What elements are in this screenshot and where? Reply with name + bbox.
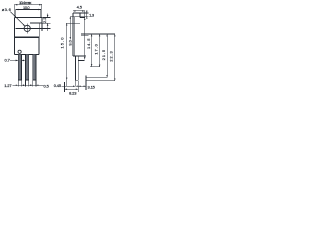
- right dims top extension: [81, 33, 115, 35]
- C arrows: [99, 34, 101, 36]
- lead 1 front: [18, 54, 21, 80]
- svg-text:3.15: 3.15: [88, 84, 96, 89]
- svg-text:0.45: 0.45: [54, 83, 62, 88]
- side view back edge: [72, 13, 74, 56]
- dim 0.45 line: [61, 85, 75, 87]
- front bottom extension lines: [17, 80, 19, 86]
- 2.2 arrows: [47, 15, 49, 18]
- L2 arrows: [70, 16, 72, 18]
- front view tab top edge: [15, 17, 42, 19]
- L1 arrows: [66, 23, 68, 25]
- svg-text:17.0: 17.0: [94, 43, 99, 54]
- 0.45 arrows: [73, 85, 75, 87]
- front body right edge upper (thin): [38, 23, 40, 37]
- dim 8.23 line: [65, 88, 79, 90]
- front body bottom edge: [15, 53, 40, 55]
- side lead: [74, 56, 76, 80]
- svg-text:21.5: 21.5: [101, 49, 106, 60]
- D arrows: [106, 34, 108, 36]
- E arrows: [114, 34, 116, 36]
- dim 4.5 top: [73, 10, 85, 12]
- side tab inner line: [74, 17, 76, 56]
- hole vertical centerline: [26, 24, 28, 34]
- svg-text:1.3: 1.3: [89, 12, 95, 17]
- A arrows: [84, 18, 86, 20]
- svg-text:22.3: 22.3: [108, 50, 113, 61]
- side view top edge: [73, 12, 80, 14]
- dim A bottom ext: [78, 60, 84, 62]
- svg-text:10.0: 10.0: [23, 5, 30, 10]
- 8.23 arrows: [65, 89, 67, 91]
- small index circle: [18, 50, 21, 53]
- side body bottom: [73, 55, 86, 57]
- front body top edge: [30, 22, 42, 24]
- side body front edge / dim A: [84, 18, 86, 60]
- svg-text:ø3.6: ø3.6: [2, 7, 12, 12]
- front bottom dim line: [12, 84, 43, 86]
- labels: [2, 0, 114, 96]
- svg-text:4.5: 4.5: [77, 5, 83, 10]
- body-top extension to left dim: [66, 22, 80, 24]
- dim 3.15 line: [78, 85, 86, 87]
- front body right edge lower: [38, 37, 40, 54]
- lead 2 front: [26, 54, 29, 80]
- dim 0.7 lines: [10, 59, 18, 61]
- dim 2.2 line: [47, 14, 49, 18]
- 10.0 arrows: [16, 9, 19, 11]
- mounting hole: [24, 25, 30, 31]
- side step at 17.5: [80, 17, 85, 19]
- dim 1.3 ext lines: [80, 12, 89, 14]
- 4.5 arrows: [73, 10, 76, 12]
- dim 10.0: [16, 9, 41, 11]
- svg-text:0.5: 0.5: [44, 83, 50, 88]
- tab/body split line (bold): [15, 36, 40, 38]
- front bottom arrow pairs: [16, 85, 18, 87]
- left dim L2: [69, 16, 71, 39]
- front view tab right edge: [41, 18, 43, 32]
- right dim D: [106, 34, 108, 77]
- side tab front upper: [79, 13, 81, 18]
- svg-text:9.0: 9.0: [67, 39, 72, 45]
- lead 3 front: [33, 54, 36, 80]
- svg-text:8.23: 8.23: [69, 91, 77, 96]
- svg-text:15.0: 15.0: [60, 37, 65, 49]
- svg-text:0.7: 0.7: [5, 58, 11, 63]
- right dim C: [99, 34, 101, 67]
- left dim L1: [66, 23, 68, 86]
- hole horizontal centerline: [16, 28, 51, 30]
- dim 2.2 ext lines: [43, 17, 51, 19]
- 0.7 arrows: [16, 60, 19, 62]
- ext vertical x86: [85, 76, 87, 91]
- 1.3 arrows: [86, 11, 88, 13]
- right dim B: [91, 34, 93, 67]
- leader arrow: [23, 24, 25, 26]
- svg-text:14.5: 14.5: [86, 38, 91, 49]
- side bottom lead ext lines: [74, 81, 76, 86]
- 3.15 arrows: [78, 85, 80, 87]
- leader line phi3.6: [10, 12, 25, 27]
- 10.4 arrows: [15, 4, 18, 6]
- svg-text:1.27: 1.27: [4, 83, 12, 88]
- svg-text:2.2: 2.2: [42, 17, 47, 23]
- dim 10.4 max: [15, 4, 42, 6]
- B arrows: [91, 34, 93, 36]
- front view tab left edge: [14, 18, 16, 55]
- right dim E: [114, 34, 116, 81]
- arrowheads: [15, 4, 116, 90]
